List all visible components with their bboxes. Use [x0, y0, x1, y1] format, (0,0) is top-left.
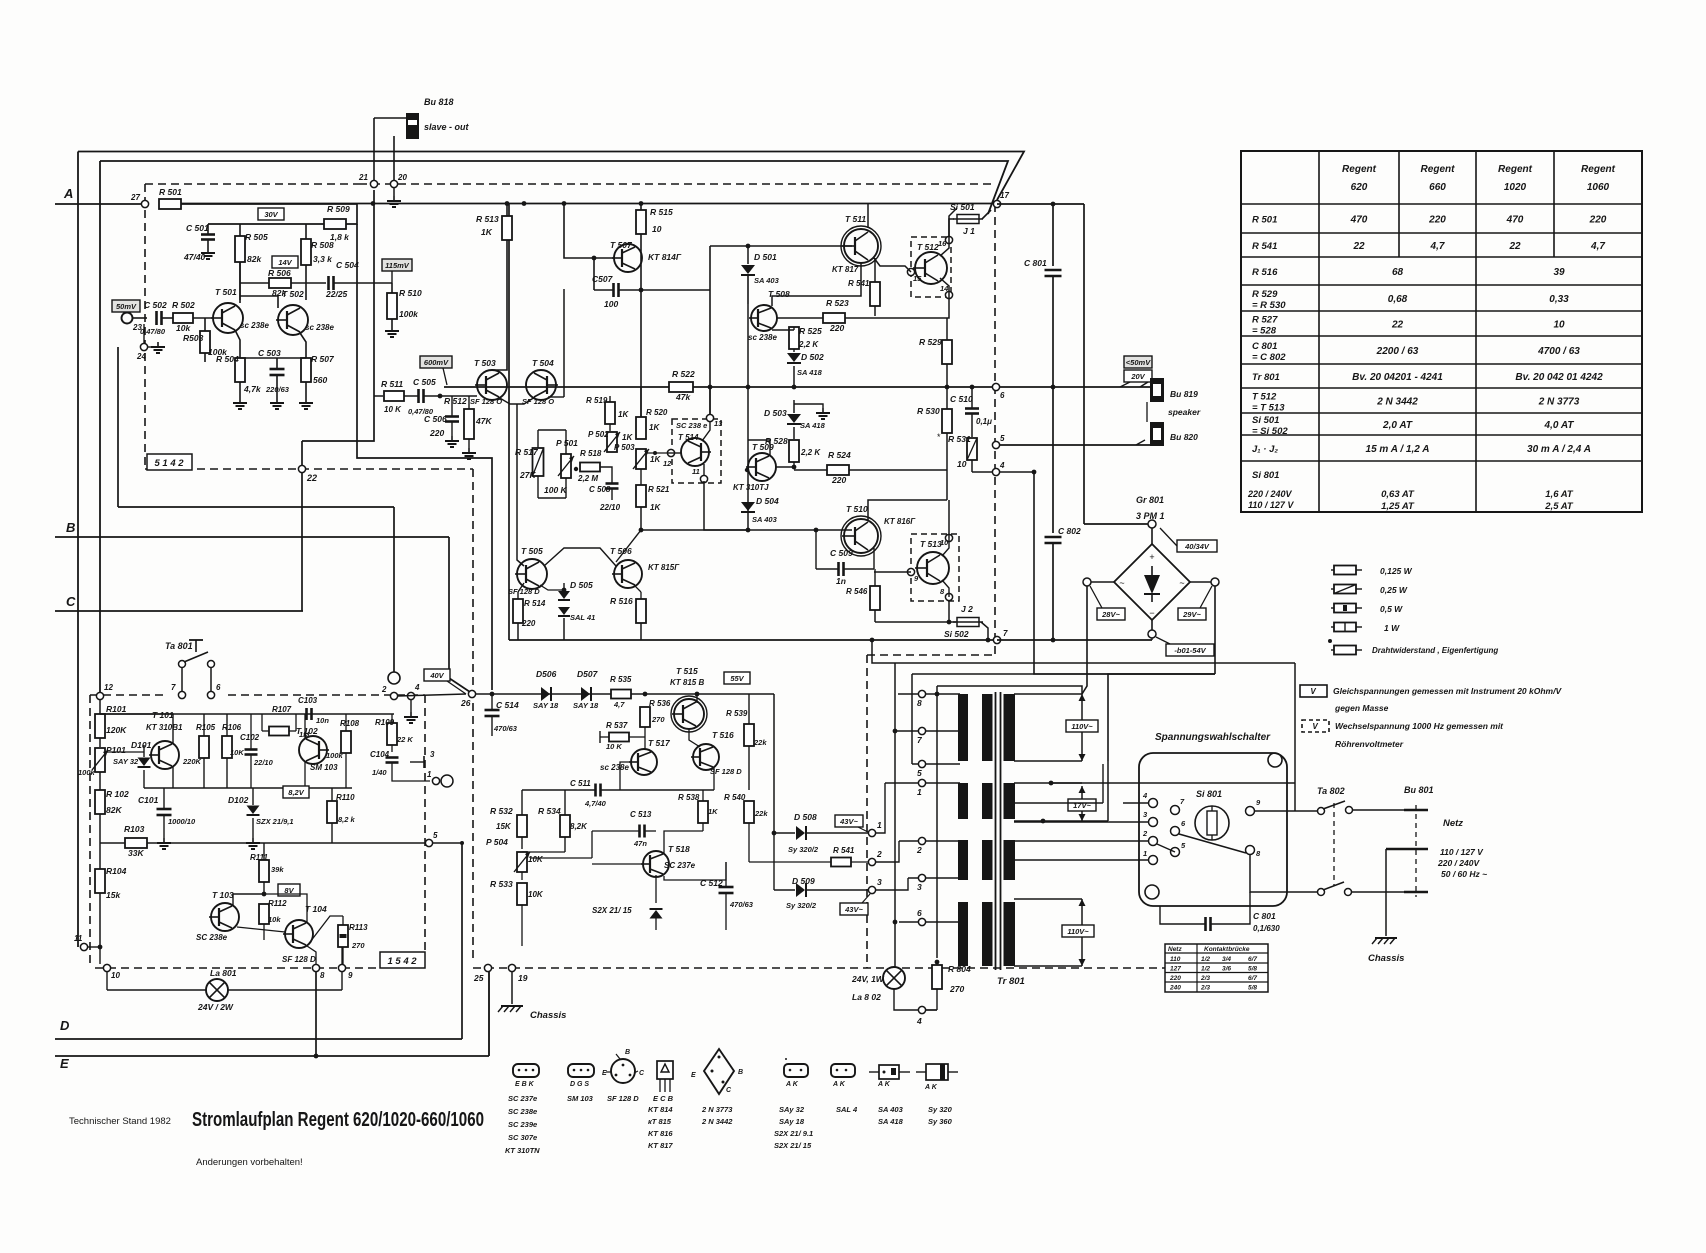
svg-text:KT 814Γ: KT 814Γ — [648, 252, 682, 262]
svg-text:D 502: D 502 — [801, 352, 824, 362]
svg-text:2,2 K: 2,2 K — [800, 448, 821, 457]
measure point 40V circle — [388, 672, 400, 684]
wire T103 to T104 base — [237, 927, 285, 932]
ground D503 — [794, 404, 823, 408]
svg-text:10: 10 — [940, 538, 949, 547]
transistor T503 — [477, 370, 507, 400]
svg-text:+: + — [1149, 552, 1154, 562]
svg-text:Netz: Netz — [1443, 818, 1463, 829]
svg-text:2/3: 2/3 — [1200, 975, 1210, 982]
svg-text:1020: 1020 — [1504, 182, 1527, 193]
svg-text:14V: 14V — [278, 258, 292, 267]
table column lines — [1318, 151, 1320, 512]
svg-text:SF 128 D: SF 128 D — [508, 587, 540, 596]
wire C509 loop — [815, 530, 817, 569]
svg-text:D 509: D 509 — [792, 876, 815, 886]
svg-text:R 537: R 537 — [606, 721, 628, 730]
svg-text:R 515: R 515 — [650, 207, 673, 217]
svg-text:KT 816: KT 816 — [648, 1129, 673, 1138]
zener SZX2115 — [650, 910, 663, 919]
svg-text:C 802: C 802 — [1058, 526, 1081, 536]
node 27 — [141, 200, 148, 207]
resistor R522 in rail — [669, 382, 693, 392]
wire vertical x118 input loop — [117, 347, 119, 507]
wire R804 to tap4 — [926, 1009, 937, 1011]
svg-text:4: 4 — [1142, 791, 1148, 800]
transformer tap 5 — [918, 760, 925, 767]
resistor R505 — [235, 236, 245, 262]
wire 17V bottom link — [1014, 820, 1108, 822]
measure box 43V~ lower — [840, 903, 868, 915]
capacitor C512 — [719, 886, 734, 889]
node 6 amp — [992, 383, 999, 390]
svg-text:110 / 127 V: 110 / 127 V — [1440, 847, 1484, 857]
rectifier internal diode — [1144, 575, 1160, 594]
diode D503 — [787, 414, 801, 423]
secondary 110V bottom arrow — [1081, 899, 1083, 966]
svg-text:0,68: 0,68 — [1388, 294, 1408, 305]
svg-text:8,2K: 8,2K — [570, 822, 588, 831]
svg-text:SA 418: SA 418 — [797, 368, 823, 377]
svg-text:R 539: R 539 — [726, 709, 748, 718]
svg-text:SAL 41: SAL 41 — [570, 613, 595, 622]
svg-text:R 541: R 541 — [848, 279, 870, 288]
svg-text:P 503: P 503 — [614, 443, 635, 452]
wire bc rail to 55V node — [773, 694, 775, 745]
svg-text:4,7/40: 4,7/40 — [584, 799, 607, 808]
svg-text:Gr 801: Gr 801 — [1136, 495, 1164, 505]
capacitor C102 — [245, 748, 258, 751]
rectifier bridge diamond — [1114, 544, 1190, 620]
svg-text:KT 310В1: KT 310В1 — [146, 723, 183, 732]
wire T514 base — [668, 452, 681, 454]
svg-text:13: 13 — [714, 419, 723, 428]
svg-text:240: 240 — [1169, 985, 1181, 992]
wire T513 emitter — [942, 580, 949, 597]
svg-text:R 519: R 519 — [586, 396, 608, 405]
svg-text:= Si 502: = Si 502 — [1252, 426, 1288, 437]
svg-text:Si 801: Si 801 — [1196, 789, 1222, 799]
wire x1295 drop — [1294, 663, 1296, 811]
wire mid rail — [444, 386, 995, 388]
switch Ta802 link dashed — [1333, 803, 1335, 886]
svg-text:8,2 k: 8,2 k — [338, 815, 356, 824]
wire R113 to node9 — [341, 947, 343, 964]
secondary stub top — [1014, 760, 1082, 762]
wire top feedback line 2 — [100, 161, 1008, 214]
svg-text:1: 1 — [1143, 849, 1147, 858]
node 4 amp — [992, 468, 999, 475]
svg-text:43V~: 43V~ — [839, 817, 858, 826]
svg-text:R 538: R 538 — [678, 793, 700, 802]
svg-text:C507: C507 — [592, 274, 614, 284]
wire T506 base diagonal — [616, 530, 641, 562]
dashed box 5142 top edge — [145, 183, 359, 185]
wire node11 link — [88, 946, 100, 948]
svg-text:220/63: 220/63 — [265, 385, 290, 394]
svg-text:P 501: P 501 — [556, 438, 578, 448]
svg-text:110V~: 110V~ — [1067, 927, 1089, 936]
resistor R518 — [580, 463, 600, 472]
node 26 — [468, 690, 475, 697]
svg-text:22/10: 22/10 — [599, 503, 621, 512]
svg-text:22k: 22k — [753, 738, 767, 747]
wire input row to T503 — [374, 395, 383, 397]
capacitor C103 — [305, 708, 308, 720]
transistor T506 — [614, 560, 642, 588]
svg-text:SA 403: SA 403 — [752, 515, 778, 524]
svg-text:Chassis: Chassis — [530, 1010, 566, 1021]
transformer core line right — [1000, 692, 1002, 970]
svg-text:15K: 15K — [496, 822, 512, 831]
wire T511 base feed — [710, 245, 852, 247]
measure box 28V~ — [1097, 608, 1125, 620]
svg-text:R108: R108 — [340, 719, 360, 728]
svg-text:T 506: T 506 — [610, 546, 632, 556]
wire Bu820 line — [1000, 444, 1152, 446]
node 12 T514 — [667, 449, 674, 456]
svg-text:SA 418: SA 418 — [878, 1117, 904, 1126]
svg-text:33K: 33K — [128, 848, 144, 858]
wire D508 feed — [773, 745, 775, 833]
svg-text:SC 239e: SC 239e — [508, 1120, 537, 1129]
wire top node row — [208, 223, 325, 225]
svg-text:3: 3 — [917, 882, 922, 892]
node 20 — [390, 180, 397, 187]
svg-text:1K: 1K — [649, 423, 660, 432]
svg-text:C 801: C 801 — [1253, 911, 1276, 921]
node 10 T513 — [945, 534, 952, 541]
svg-text:SAy 32: SAy 32 — [779, 1105, 805, 1114]
resistor R532 — [517, 815, 527, 837]
svg-text:100k: 100k — [326, 751, 344, 760]
wire T512 emitter bottom — [940, 278, 949, 295]
resistor R519 — [605, 402, 615, 424]
selector contact 5 — [1171, 848, 1180, 857]
svg-text:R 517: R 517 — [515, 447, 539, 457]
svg-text:D 508: D 508 — [794, 812, 817, 822]
svg-text:C 513: C 513 — [630, 810, 652, 819]
svg-text:C103: C103 — [298, 696, 318, 705]
transistor T518 — [643, 851, 669, 877]
diode D505 SAL41 double — [563, 583, 565, 592]
wire bridge right down — [1214, 586, 1216, 674]
wire bundle v3 — [936, 686, 938, 958]
capacitor C509 — [837, 562, 840, 576]
svg-text:J 2: J 2 — [961, 604, 973, 614]
svg-text:220: 220 — [429, 428, 444, 438]
dashed bottom-center module left edge — [472, 469, 474, 963]
svg-text:SAY 18: SAY 18 — [533, 701, 559, 710]
svg-text:SM 103: SM 103 — [567, 1094, 594, 1103]
svg-text:SC 238 e: SC 238 e — [676, 421, 707, 430]
svg-text:R 531: R 531 — [948, 434, 971, 444]
voltage selector box — [1139, 753, 1287, 906]
chassis ground mains — [1375, 937, 1397, 939]
wire T511 emitter to T512 — [874, 258, 911, 272]
svg-text:115mV: 115mV — [385, 261, 410, 270]
resistor R103 — [125, 838, 147, 848]
svg-text:E: E — [602, 1070, 607, 1077]
resistor R101 — [95, 714, 105, 738]
svg-text:R 512: R 512 — [444, 396, 467, 406]
svg-text:22: 22 — [1508, 241, 1521, 252]
node 17 — [993, 200, 1000, 207]
transformer tap 6 — [918, 918, 925, 925]
svg-text:22/25: 22/25 — [325, 289, 348, 299]
resistor R517 wirewound pot — [533, 448, 544, 476]
svg-text:D: D — [60, 1018, 70, 1033]
wire T502 base link — [240, 296, 278, 308]
selector contact 3 — [1149, 818, 1158, 827]
svg-text:6/7: 6/7 — [1248, 956, 1257, 963]
capacitor C507 — [612, 283, 615, 297]
svg-text:R 546: R 546 — [846, 587, 868, 596]
svg-text:470: 470 — [1350, 215, 1368, 226]
transistor T512 — [915, 252, 947, 284]
svg-text:1K: 1K — [708, 807, 718, 816]
svg-text:R 516: R 516 — [610, 596, 633, 606]
junction T509 base — [792, 465, 797, 470]
svg-text:C 502: C 502 — [144, 300, 167, 310]
wire T513 emitter to Si502 — [948, 601, 950, 622]
transformer secondary winding bars — [1004, 694, 1016, 761]
svg-text:27: 27 — [130, 193, 140, 202]
measure box 17V~ — [1068, 799, 1096, 811]
node 15 — [907, 268, 914, 275]
wire node21 loop to node22 — [302, 190, 374, 441]
junction 600mV — [438, 394, 443, 399]
transformer tap 3 — [918, 874, 925, 881]
svg-text:R 513: R 513 — [476, 214, 499, 224]
svg-text:J 1: J 1 — [963, 226, 975, 236]
svg-text:SZX 21/9,1: SZX 21/9,1 — [256, 817, 294, 826]
svg-text:82K: 82K — [106, 805, 122, 815]
svg-text:0,1/630: 0,1/630 — [1253, 924, 1280, 933]
node 2 bc — [868, 858, 875, 865]
capacitor C503 — [270, 368, 285, 371]
wire T102 drain — [304, 714, 306, 738]
measure box -601-54V — [1166, 644, 1214, 656]
svg-text:10: 10 — [111, 971, 120, 980]
diode D507 — [581, 687, 590, 701]
svg-text:11: 11 — [692, 467, 700, 476]
svg-text:22k: 22k — [754, 809, 768, 818]
svg-text:SC 237e: SC 237e — [508, 1094, 537, 1103]
svg-text:T 504: T 504 — [532, 358, 554, 368]
wire T505 T506 link — [544, 548, 616, 566]
svg-text:270: 270 — [651, 715, 665, 724]
svg-text:R110: R110 — [336, 793, 355, 802]
svg-text:KT 310ТN: KT 310ТN — [505, 1146, 540, 1155]
svg-text:1: 1 — [877, 820, 882, 830]
svg-text:R 506: R 506 — [268, 268, 291, 278]
svg-text:SC 237e: SC 237e — [664, 861, 696, 870]
svg-text:120K: 120K — [106, 725, 127, 735]
transformer tap 2 — [918, 837, 925, 844]
svg-text:C 511: C 511 — [570, 779, 591, 788]
wire node4 to transformer loop — [1000, 472, 1215, 674]
capacitor C101 — [157, 808, 172, 811]
svg-text:T 512: T 512 — [1252, 392, 1277, 403]
junction C510 — [970, 385, 975, 390]
wire T508 collector row — [772, 263, 861, 306]
svg-text:2: 2 — [1142, 829, 1148, 838]
svg-text:Bu 819: Bu 819 — [1170, 389, 1198, 399]
resistor R537 — [609, 733, 629, 742]
wire plus drop to bridge — [1083, 204, 1085, 524]
svg-text:110: 110 — [1170, 956, 1181, 963]
svg-text:12: 12 — [104, 683, 113, 692]
svg-text:D102: D102 — [228, 795, 249, 805]
svg-text:10n: 10n — [316, 716, 329, 725]
capacitor C506 — [445, 415, 459, 418]
svg-text:SA 403: SA 403 — [754, 276, 780, 285]
svg-text:SC 238e: SC 238e — [508, 1107, 537, 1116]
svg-text:2/3: 2/3 — [1200, 985, 1210, 992]
svg-text:R 540: R 540 — [724, 793, 746, 802]
wire E corner up — [488, 968, 490, 1056]
svg-text:7: 7 — [1003, 629, 1008, 638]
chassis ground symbol — [501, 1005, 523, 1007]
wire C513 row — [592, 830, 639, 832]
svg-text:A K: A K — [924, 1084, 938, 1091]
wire bridge left down — [1082, 586, 1087, 694]
wire output to T513 top — [948, 500, 950, 538]
svg-text:R503: R503 — [183, 333, 204, 343]
node 16 — [945, 236, 952, 243]
svg-text:2,5 AT: 2,5 AT — [1544, 501, 1574, 512]
svg-text:R 501: R 501 — [1252, 215, 1277, 226]
measure circle contact — [441, 775, 453, 787]
transformer tap 7 — [918, 727, 925, 734]
junction R536 top — [643, 692, 648, 697]
bridge terminal top — [1148, 520, 1156, 528]
node 21 — [370, 180, 377, 187]
svg-text:100k: 100k — [399, 309, 419, 319]
measure box 40V — [424, 669, 450, 681]
svg-text:C: C — [66, 594, 76, 609]
junction bundle — [893, 729, 898, 734]
svg-text:SF 128 D: SF 128 D — [282, 955, 316, 964]
svg-text:4,7k: 4,7k — [243, 384, 262, 394]
wire P501 wiper to R518 — [574, 467, 578, 471]
wire R531 to node4 — [972, 471, 992, 473]
diode D506 — [541, 687, 550, 701]
svg-text:6: 6 — [917, 908, 922, 918]
wire C104 to contact — [392, 775, 430, 781]
wire node1 jog — [876, 783, 885, 833]
measure box 20V — [1124, 370, 1152, 382]
wire 17V line long — [1014, 782, 1051, 784]
wire speaker line — [1000, 386, 1152, 388]
junction C802 bottom — [1051, 638, 1056, 643]
selector contact 2 — [1149, 837, 1158, 846]
svg-text:кT 815: кT 815 — [648, 1117, 672, 1126]
resistor R106 — [222, 736, 232, 758]
wire T104 emitter to R113 — [307, 916, 343, 946]
wire T507 down — [640, 275, 642, 417]
diode D509 — [796, 883, 805, 897]
svg-text:SF 128 O: SF 128 O — [470, 397, 502, 406]
module label 5142 — [147, 454, 192, 470]
wire R518 to C508 — [600, 467, 612, 471]
svg-text:Bu 820: Bu 820 — [1170, 432, 1198, 442]
wire lamp row — [106, 972, 108, 990]
svg-text:4: 4 — [916, 1016, 922, 1026]
svg-text:R 511: R 511 — [381, 379, 403, 389]
node 11 — [80, 943, 87, 950]
wire T514 emitter — [703, 464, 705, 475]
svg-text:82k: 82k — [247, 254, 262, 264]
node 24 — [140, 343, 147, 350]
junction output node — [945, 385, 950, 390]
svg-text:39k: 39k — [271, 865, 284, 874]
wire T508 emitter — [772, 329, 794, 331]
wire D501 top — [747, 246, 749, 264]
dashed bottom-center module right edge — [866, 655, 868, 968]
svg-text:C 509: C 509 — [830, 548, 853, 558]
pot P502 — [607, 432, 617, 452]
dashed box T512 — [911, 237, 951, 297]
svg-text:C104: C104 — [370, 750, 390, 759]
svg-text:C 506: C 506 — [424, 414, 447, 424]
wire T102 source — [304, 762, 306, 788]
wire Ta801 leads — [181, 668, 183, 695]
resistor R531 — [967, 438, 977, 460]
svg-text:20V: 20V — [1130, 372, 1145, 381]
svg-text:5: 5 — [917, 768, 922, 778]
svg-text:T 501: T 501 — [215, 287, 237, 297]
svg-text:39: 39 — [1553, 267, 1565, 278]
wire R546 to Si502 — [875, 621, 956, 623]
legend resistor 0.125W — [1334, 566, 1356, 575]
svg-text:La 801: La 801 — [210, 968, 237, 978]
svg-text:21: 21 — [358, 173, 368, 182]
wire module top feed — [99, 700, 101, 714]
resistor R509 — [324, 219, 346, 229]
svg-text:R101: R101 — [106, 704, 127, 714]
svg-text:1 W: 1 W — [1384, 623, 1400, 633]
dashed bottom-center module top edge — [867, 654, 995, 656]
capacitor C505 — [417, 389, 420, 403]
svg-text:15k: 15k — [106, 890, 121, 900]
resistor R502 — [173, 313, 193, 323]
svg-text:15 m A / 1,2 A: 15 m A / 1,2 A — [1366, 444, 1430, 455]
resistor R511 — [384, 391, 404, 401]
wire T513 base — [874, 571, 911, 573]
pot P504 — [517, 852, 527, 872]
svg-text:Anderungen vorbehalten!: Anderungen vorbehalten! — [196, 1157, 303, 1168]
svg-text:R 502: R 502 — [172, 300, 195, 310]
svg-text:4700 / 63: 4700 / 63 — [1537, 346, 1580, 357]
svg-text:Si 501: Si 501 — [1252, 415, 1279, 426]
dashed box 5142 bottom edge — [145, 468, 473, 470]
svg-text:620: 620 — [1351, 182, 1368, 193]
svg-text:R 529: R 529 — [1252, 289, 1278, 300]
wire amp left vertical — [508, 204, 510, 641]
wire contact8 down loop — [1250, 854, 1321, 892]
svg-text:A K: A K — [785, 1081, 799, 1088]
wire T510 collector — [868, 500, 947, 520]
svg-text:SAy 18: SAy 18 — [779, 1117, 805, 1126]
svg-text:SAY 18: SAY 18 — [573, 701, 599, 710]
svg-text:1K: 1K — [618, 410, 629, 419]
resistor R109 — [387, 723, 397, 745]
secondary stub bottom — [1014, 965, 1082, 967]
svg-text:9: 9 — [348, 971, 353, 980]
resistor R513 — [502, 216, 512, 240]
